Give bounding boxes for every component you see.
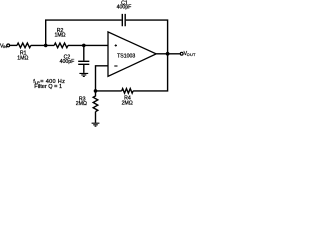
node VOUT label xyxy=(184,51,197,57)
wire xyxy=(96,90,122,92)
resistor R2 xyxy=(54,43,68,48)
wire xyxy=(156,53,180,55)
node A xyxy=(44,44,48,48)
capacitor C2 xyxy=(78,61,89,64)
wire xyxy=(31,44,54,46)
ground xyxy=(92,123,100,126)
note text xyxy=(33,79,65,90)
wire xyxy=(68,44,109,46)
op-amp U1 TS1003 xyxy=(108,32,156,77)
node B xyxy=(82,44,86,48)
svg-text:Filter Q = 1: Filter Q = 1 xyxy=(34,84,62,90)
node C xyxy=(94,89,98,93)
svg-text:2MΩ: 2MΩ xyxy=(76,101,87,107)
wire xyxy=(83,45,85,60)
terminal VIN xyxy=(7,44,10,47)
wire xyxy=(83,65,85,73)
resistor R1 xyxy=(17,43,31,48)
capacitor C1 xyxy=(122,14,125,26)
resistor R4 xyxy=(122,89,133,94)
svg-text:400pF: 400pF xyxy=(60,59,75,65)
wire feedback rail xyxy=(46,20,168,54)
svg-text:400pF: 400pF xyxy=(117,5,132,11)
wire xyxy=(133,54,168,91)
wire inverting input xyxy=(96,66,109,91)
node output xyxy=(166,52,170,56)
svg-text:1MΩ: 1MΩ xyxy=(17,55,28,61)
terminal VOUT xyxy=(180,52,183,55)
wire xyxy=(10,44,17,46)
svg-text:TS1003: TS1003 xyxy=(117,53,135,59)
wire xyxy=(95,112,97,123)
node VIN label xyxy=(0,43,7,49)
resistor R3 xyxy=(93,91,98,112)
svg-text:1MΩ: 1MΩ xyxy=(54,33,65,39)
ground xyxy=(79,73,88,76)
svg-text:OUT: OUT xyxy=(187,53,196,57)
svg-text:2MΩ: 2MΩ xyxy=(122,100,133,106)
